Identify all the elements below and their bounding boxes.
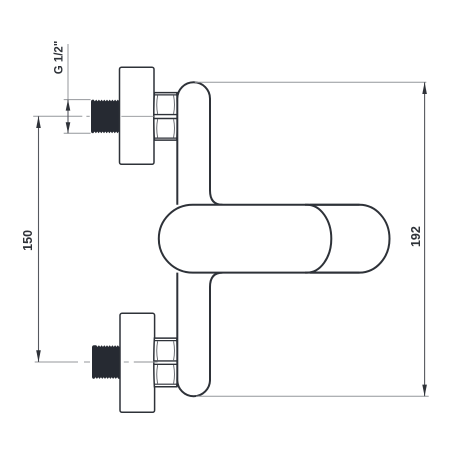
centerline bottom bbox=[124, 361, 129, 363]
bottom wall flange bbox=[120, 313, 155, 412]
faucet vertical body, lower piece (fill) bbox=[177, 273, 222, 397]
centerline top bbox=[121, 115, 153, 117]
G 1/2 dim: extension lines bbox=[64, 99, 91, 101]
top threaded nipple G1/2 bbox=[91, 100, 121, 134]
svg-text:150: 150 bbox=[21, 230, 35, 251]
192 arrows bbox=[422, 82, 427, 94]
150 dim: extension lines bbox=[33, 115, 82, 117]
svg-text:G 1/2": G 1/2" bbox=[53, 41, 65, 75]
192 dim: extension lines bbox=[195, 81, 426, 83]
handle pill (behind body) bbox=[310, 205, 390, 273]
faucet vertical body, upper piece (outline with fillet) bbox=[177, 82, 222, 205]
top wall flange bbox=[120, 67, 155, 164]
G 1/2 leader bbox=[67, 44, 69, 100]
bottom threaded nipple G1/2 bbox=[92, 345, 121, 379]
G 1/2 arrows bbox=[66, 100, 71, 111]
150 arrows bbox=[36, 116, 41, 128]
spout pill (full stadium, front) bbox=[159, 205, 332, 273]
handle top/bottom edges re-stroked over junction bbox=[305, 205, 360, 273]
192 dim line bbox=[424, 82, 426, 396]
faucet vertical body, lower piece (outline with fillet) bbox=[177, 273, 222, 397]
G 1/2 dim line bbox=[67, 100, 69, 134]
svg-text:192: 192 bbox=[409, 226, 423, 247]
bottom hex nut bbox=[154, 338, 178, 387]
150 dim line bbox=[38, 116, 40, 362]
faucet vertical body, upper piece (fill) bbox=[177, 82, 222, 205]
top hex nut bbox=[154, 93, 178, 141]
